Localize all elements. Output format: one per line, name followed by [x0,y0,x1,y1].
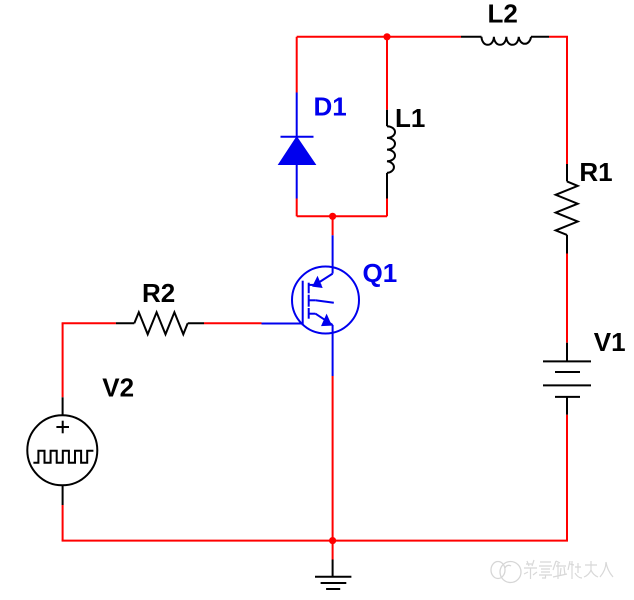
wire left branch lower (V2 to bottom corner) [62,505,64,541]
node bottom junction [329,537,336,544]
watermark logo [491,562,521,583]
wire top rail left segment (node D1-top to L2) [297,36,461,38]
wire right rail lower (V1 to bottom corner) [566,415,568,541]
inductor L1 [387,110,395,199]
wire drain red [332,216,334,235]
resistor R1 [556,164,578,254]
source V2 [27,397,97,505]
transistor Q1 [292,267,359,334]
wire L1 branch top red [386,37,388,110]
svg-text:L1: L1 [395,103,425,133]
svg-text:V1: V1 [594,327,626,357]
svg-text:R1: R1 [579,157,612,187]
wire drain blue [332,235,334,273]
wire gate segment left [62,322,116,324]
watermark text [524,560,613,579]
inductor L2 [461,37,549,45]
wire L1 branch bottom red [386,199,388,217]
wire left branch upper (corner to V2) [62,323,64,397]
svg-text:R2: R2 [142,278,175,308]
ground [315,560,351,590]
svg-text:V2: V2 [102,373,134,403]
wire D1 branch top red [296,37,298,93]
node top junction [383,33,390,40]
diode D1 [280,93,315,199]
wire source red [332,376,334,541]
battery V1 [543,343,591,415]
wire bottom sub-rail [297,215,387,217]
wire gate lead blue [262,323,303,325]
svg-text:L2: L2 [488,0,518,29]
resistor R2 [116,312,204,334]
svg-text:Q1: Q1 [363,258,398,288]
wire D1 branch bottom red [296,199,298,217]
wire bottom rail [62,540,568,542]
wire right rail middle (R1 to V1) [566,254,568,343]
svg-text:D1: D1 [314,92,347,122]
wire gate segment right [204,322,262,324]
wire source blue [332,334,334,377]
node mid junction [329,213,336,220]
wire top rail right segment (L2 to right corner) [549,37,567,164]
wire ground stub [332,541,334,560]
